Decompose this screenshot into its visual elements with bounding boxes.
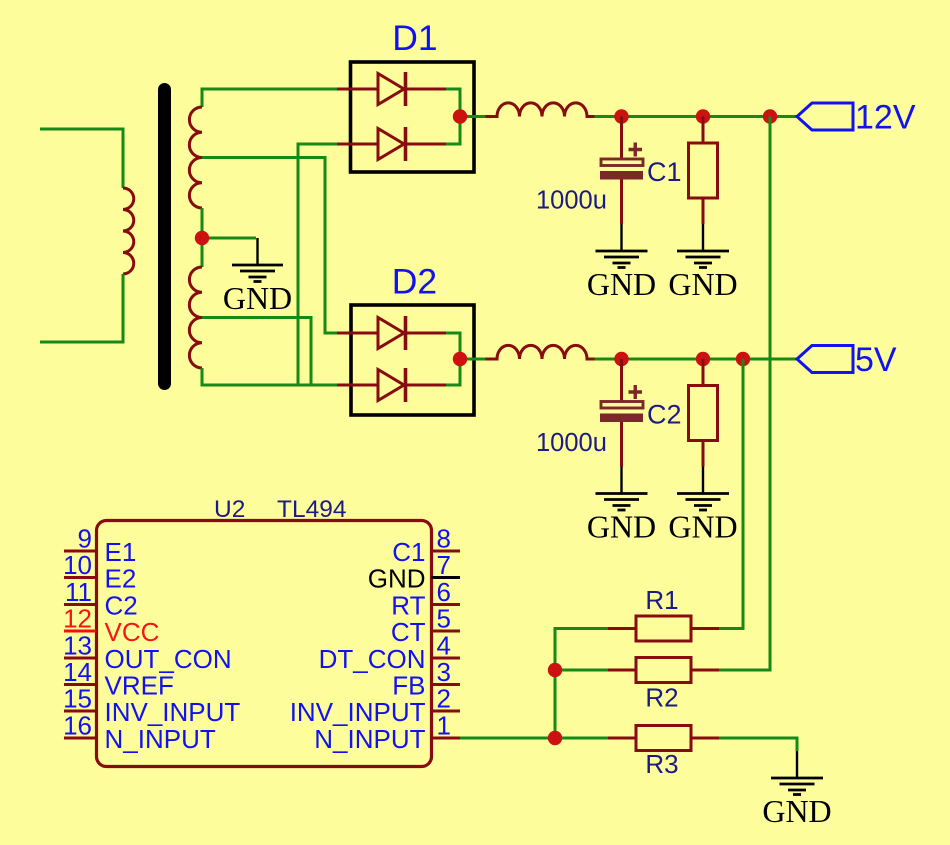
wire R1 left bbox=[555, 629, 608, 739]
svg-text:1000u: 1000u bbox=[536, 187, 607, 215]
svg-text:2: 2 bbox=[437, 684, 451, 714]
svg-text:16: 16 bbox=[63, 711, 92, 741]
svg-text:FB: FB bbox=[392, 671, 425, 701]
inductor L1 bbox=[486, 103, 595, 117]
pin 6 bbox=[391, 577, 460, 621]
svg-text:R2: R2 bbox=[645, 683, 678, 713]
primary coil bbox=[123, 188, 134, 274]
wire tap upper to D2 diode A bbox=[202, 158, 337, 334]
svg-text:12: 12 bbox=[63, 604, 92, 634]
pin 3 bbox=[392, 657, 460, 701]
wire winding bottom to D1 diode B bbox=[298, 144, 337, 385]
svg-text:CT: CT bbox=[391, 617, 426, 647]
pin 15 bbox=[63, 684, 240, 728]
secondary coil upper bbox=[189, 107, 202, 208]
wire R3 to ground bbox=[719, 738, 797, 751]
svg-text:RT: RT bbox=[391, 591, 425, 621]
svg-text:E1: E1 bbox=[105, 537, 137, 567]
junction C2 bbox=[614, 352, 628, 366]
transformer core bbox=[158, 90, 171, 384]
svg-text:OUT_CON: OUT_CON bbox=[105, 644, 232, 674]
flag 5V bbox=[797, 346, 853, 373]
resistor R3 bbox=[608, 726, 719, 751]
wire 12V rail bbox=[605, 115, 797, 118]
ground (C2) bbox=[596, 467, 648, 511]
svg-text:4: 4 bbox=[437, 631, 451, 661]
wire 12V to R2 bbox=[719, 117, 770, 671]
resistor R1 bbox=[608, 616, 719, 641]
svg-text:5V: 5V bbox=[855, 341, 897, 379]
pin 12 VCC bbox=[63, 604, 159, 648]
svg-text:TL494: TL494 bbox=[277, 496, 346, 523]
wire secondary middle bbox=[201, 208, 204, 267]
D1 diode A bbox=[337, 72, 446, 106]
svg-text:C2: C2 bbox=[647, 400, 682, 430]
svg-text:1000u: 1000u bbox=[536, 429, 607, 457]
ground (R3) bbox=[771, 751, 823, 795]
svg-text:E2: E2 bbox=[105, 564, 137, 594]
wire D2 output join bbox=[446, 333, 460, 385]
capacitor C1 bbox=[600, 117, 643, 225]
svg-text:D2: D2 bbox=[392, 262, 437, 302]
transformer TR primary bbox=[40, 129, 134, 342]
svg-text:DT_CON: DT_CON bbox=[319, 644, 426, 674]
wire 5V to R1 bbox=[719, 359, 743, 629]
junction 5V branch bbox=[736, 352, 750, 366]
svg-text:VREF: VREF bbox=[105, 671, 174, 701]
wire primary bottom bbox=[40, 274, 123, 342]
pin 11 bbox=[64, 577, 138, 621]
wire pin1 to R3 bbox=[460, 737, 608, 740]
pin 14 bbox=[63, 657, 174, 701]
svg-text:11: 11 bbox=[65, 577, 92, 607]
ground (5V resistor) bbox=[677, 467, 729, 511]
svg-text:14: 14 bbox=[63, 657, 92, 687]
wire D2 out bbox=[460, 358, 605, 361]
wire secondary bottom to D2 bbox=[202, 368, 337, 385]
pin 13 bbox=[63, 631, 232, 675]
svg-text:15: 15 bbox=[63, 684, 92, 714]
svg-text:1: 1 bbox=[437, 711, 451, 741]
bridge D2 bbox=[351, 305, 474, 415]
bridge D1 bbox=[351, 62, 475, 172]
junction 12V branch bbox=[763, 109, 777, 123]
inductor L2 bbox=[486, 345, 595, 359]
pin 5 bbox=[391, 604, 460, 648]
wire D1 out bbox=[460, 115, 605, 118]
svg-text:C1: C1 bbox=[392, 537, 425, 567]
D2 diode B bbox=[337, 368, 446, 402]
ground (transformer) bbox=[232, 238, 283, 282]
secondary coil lower bbox=[189, 267, 202, 368]
wire center tap to ground bbox=[202, 237, 256, 240]
svg-text:GND: GND bbox=[587, 509, 656, 545]
svg-text:R1: R1 bbox=[645, 585, 678, 615]
svg-text:GND: GND bbox=[668, 509, 737, 545]
svg-text:R3: R3 bbox=[645, 749, 678, 779]
svg-text:N_INPUT: N_INPUT bbox=[314, 724, 425, 754]
svg-text:12V: 12V bbox=[855, 99, 916, 137]
svg-text:10: 10 bbox=[63, 550, 92, 580]
junction R2 left bbox=[548, 663, 562, 677]
resistor (12V load) bbox=[689, 117, 718, 225]
svg-text:GND: GND bbox=[762, 793, 831, 829]
D1 diode B bbox=[337, 127, 446, 161]
wire secondary top to D1 bbox=[202, 89, 337, 107]
pin 10 bbox=[63, 550, 136, 594]
transformer secondary bbox=[189, 89, 337, 385]
pin 7 GND bbox=[368, 550, 460, 594]
pin 1 bbox=[314, 711, 460, 755]
pin 2 bbox=[290, 684, 460, 728]
junction D2 out bbox=[453, 352, 467, 366]
resistor R2 bbox=[608, 658, 719, 683]
junction center tap bbox=[195, 231, 209, 245]
svg-text:3: 3 bbox=[437, 657, 451, 687]
svg-text:C2: C2 bbox=[105, 591, 138, 621]
svg-text:13: 13 bbox=[63, 631, 92, 661]
svg-text:INV_INPUT: INV_INPUT bbox=[290, 697, 426, 727]
junction C1 bbox=[614, 109, 628, 123]
flag 12V bbox=[797, 103, 853, 130]
svg-text:D1: D1 bbox=[392, 18, 437, 58]
svg-text:INV_INPUT: INV_INPUT bbox=[105, 697, 241, 727]
pin 16 bbox=[63, 711, 216, 755]
wire 5V rail bbox=[605, 358, 797, 361]
wire R2 left bbox=[555, 669, 608, 672]
svg-text:GND: GND bbox=[668, 266, 737, 302]
ground (C1) bbox=[596, 224, 648, 268]
wire D1 output join bbox=[446, 89, 460, 144]
svg-text:GND: GND bbox=[368, 564, 426, 594]
svg-text:6: 6 bbox=[437, 577, 451, 607]
svg-text:VCC: VCC bbox=[105, 617, 160, 647]
wire primary top bbox=[40, 129, 123, 188]
pin 4 bbox=[319, 631, 460, 675]
svg-text:C1: C1 bbox=[647, 157, 682, 187]
IC U2 TL494 bbox=[97, 521, 432, 767]
svg-text:9: 9 bbox=[78, 524, 92, 554]
wire tap lower bbox=[202, 318, 311, 386]
pin 9 bbox=[64, 524, 136, 568]
resistor (5V load) bbox=[689, 359, 718, 467]
svg-text:GND: GND bbox=[587, 266, 656, 302]
ground (12V resistor) bbox=[677, 224, 729, 268]
junction R-c2 bbox=[696, 352, 710, 366]
svg-text:N_INPUT: N_INPUT bbox=[105, 724, 216, 754]
junction R-c1 bbox=[696, 109, 710, 123]
D2 diode A bbox=[337, 316, 446, 350]
svg-text:8: 8 bbox=[437, 524, 451, 554]
junction D1 out bbox=[453, 109, 467, 123]
svg-text:5: 5 bbox=[437, 604, 451, 634]
pin 8 bbox=[392, 524, 460, 568]
svg-text:7: 7 bbox=[437, 550, 451, 580]
junction R3 left bbox=[548, 731, 562, 745]
capacitor C2 bbox=[600, 359, 643, 467]
svg-text:GND: GND bbox=[223, 280, 292, 316]
svg-text:U2: U2 bbox=[214, 496, 245, 523]
